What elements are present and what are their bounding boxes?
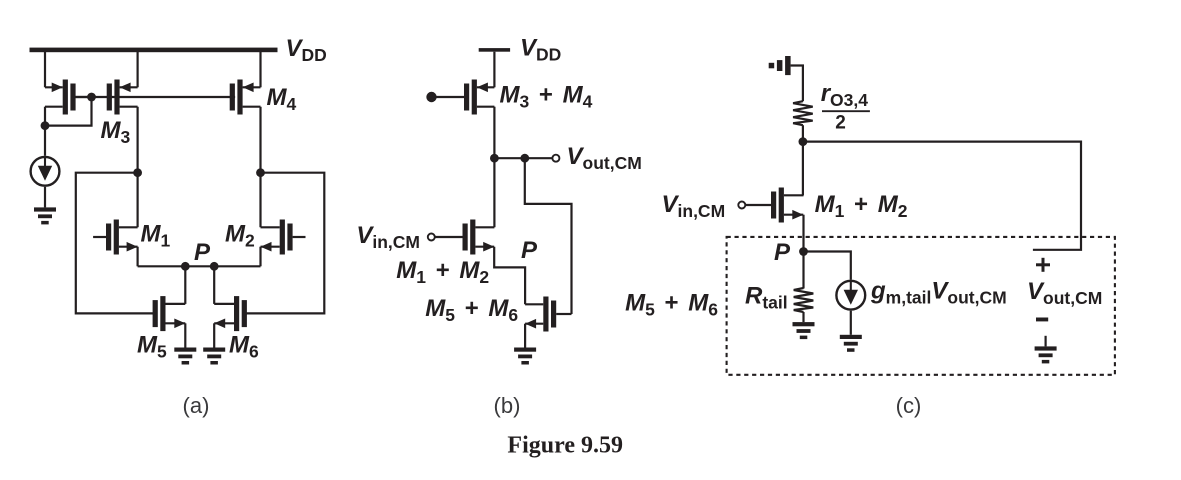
svg-text:(b): (b) xyxy=(494,393,521,418)
svg-text:M1 + M2: M1 + M2 xyxy=(396,257,489,287)
svg-text:(c): (c) xyxy=(896,393,922,418)
svg-text:2: 2 xyxy=(835,113,846,134)
svg-text:M5 + M6: M5 + M6 xyxy=(425,295,518,325)
svg-text:P: P xyxy=(774,239,791,266)
svg-text:P: P xyxy=(194,239,211,266)
svg-text:M1 + M2: M1 + M2 xyxy=(815,191,908,221)
svg-text:(a): (a) xyxy=(183,393,210,418)
svg-text:Figure 9.59: Figure 9.59 xyxy=(507,433,623,459)
svg-text:P: P xyxy=(521,237,538,264)
svg-text:M3 + M4: M3 + M4 xyxy=(500,82,593,112)
svg-text:M5 + M6: M5 + M6 xyxy=(625,290,718,320)
